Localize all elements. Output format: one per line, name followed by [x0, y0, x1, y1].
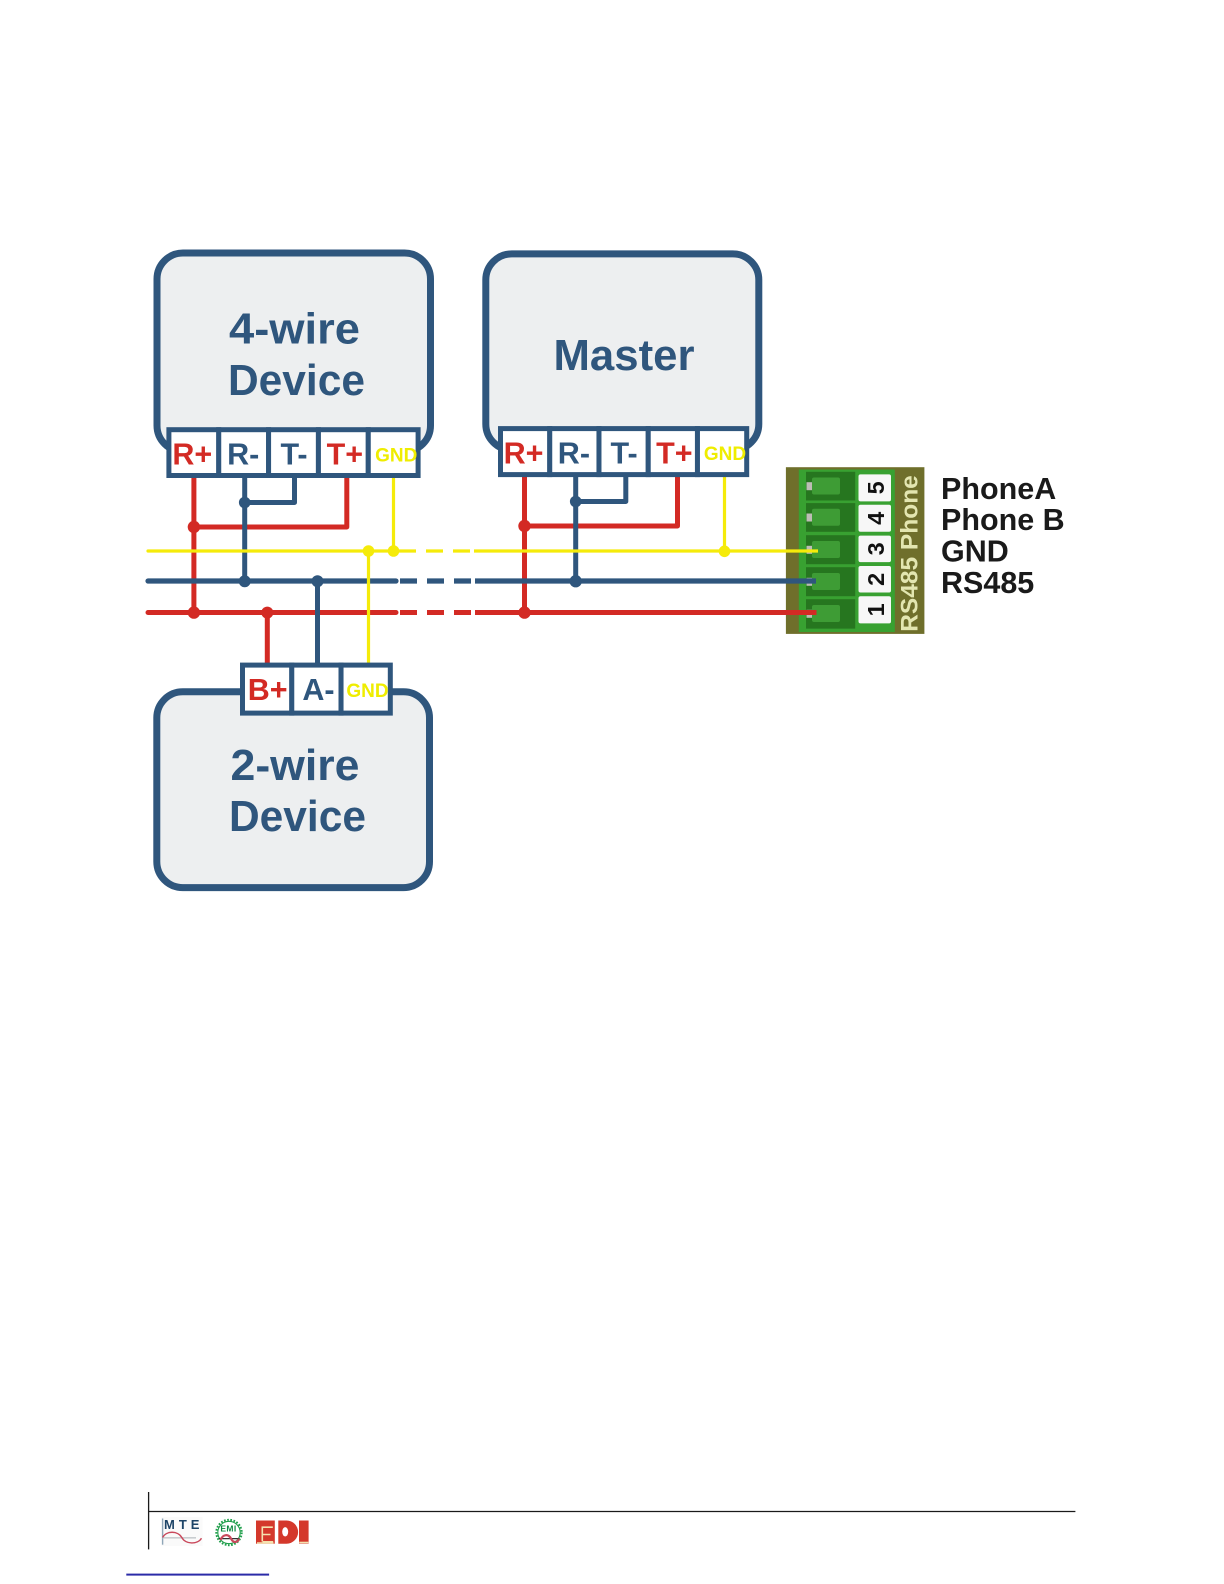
- wire Master R+ drop: [522, 476, 527, 613]
- svg-text:R+: R+: [172, 438, 212, 472]
- svg-text:A-: A-: [302, 673, 334, 707]
- junction 2-wire A- at blue bus: [312, 575, 324, 587]
- svg-text:PhoneA: PhoneA: [941, 472, 1056, 506]
- footer link underline: [126, 1574, 269, 1576]
- svg-text:Device: Device: [229, 793, 366, 841]
- 4-wire Device box: [157, 253, 431, 452]
- svg-text:MTE: MTE: [164, 1517, 203, 1532]
- 4-wire device terminal strip: [169, 430, 418, 476]
- svg-text:GND: GND: [941, 535, 1009, 569]
- junction Master R-/T- jumper: [570, 496, 582, 508]
- svg-text:2: 2: [863, 573, 889, 586]
- junction Master R+/T+ jumper: [518, 520, 530, 532]
- svg-text:GND: GND: [375, 445, 417, 466]
- svg-text:RS485 Phone: RS485 Phone: [897, 475, 924, 632]
- junction 4-wire R- at blue bus: [239, 575, 251, 587]
- svg-text:Device: Device: [228, 357, 365, 405]
- pin number plate 4: [859, 505, 892, 532]
- connector slot pin 5: [806, 472, 855, 501]
- junction 2-wire B+ at red bus: [261, 607, 273, 619]
- pin number plate 3: [859, 536, 892, 563]
- junction 4-wire R+ at red bus: [188, 606, 200, 618]
- wire 4-wire GND drop: [392, 476, 395, 551]
- junction Master R- at blue bus: [570, 575, 582, 587]
- svg-text:4-wire: 4-wire: [229, 306, 360, 354]
- svg-text:T-: T-: [611, 437, 638, 471]
- svg-text:T+: T+: [656, 437, 692, 471]
- svg-text:R-: R-: [558, 437, 590, 471]
- wire B+ data bus (red): [148, 610, 817, 615]
- MTE logo: [162, 1517, 204, 1546]
- connector slot pin 2: [806, 567, 855, 596]
- wire Master jumper R- to T-: [576, 476, 626, 502]
- 2-wire Device box: [157, 692, 430, 888]
- 2-wire device terminal strip: [243, 665, 391, 713]
- svg-text:2-wire: 2-wire: [231, 742, 360, 790]
- pin number plate 5: [859, 474, 892, 501]
- svg-text:GND: GND: [704, 444, 746, 465]
- svg-text:EMI: EMI: [220, 1524, 236, 1534]
- wire A- data bus (blue): [148, 578, 816, 583]
- EDI logo: [256, 1521, 309, 1544]
- svg-text:3: 3: [863, 542, 889, 555]
- junction 2-wire GND at yellow bus: [363, 545, 375, 557]
- wire Master jumper R+ to T+: [525, 476, 678, 526]
- wire 4-wire R- drop: [242, 476, 247, 581]
- pin number plate 1: [859, 596, 892, 623]
- svg-text:R-: R-: [227, 438, 259, 472]
- junction 4-wire GND at yellow bus: [388, 545, 400, 557]
- RS485 Phone connector body: [786, 467, 925, 634]
- Master box: [486, 254, 759, 450]
- connector slot pin 1: [806, 599, 855, 628]
- wire 4-wire jumper R+ to T+: [194, 476, 347, 527]
- junction 4-wire R-/T- jumper: [239, 497, 251, 509]
- footer horizontal rule: [148, 1511, 1075, 1513]
- svg-text:R+: R+: [504, 437, 544, 471]
- junction Master GND at yellow bus: [719, 546, 731, 558]
- wire 4-wire jumper R- to T-: [245, 476, 295, 503]
- wire 2-wire GND branch: [367, 551, 370, 664]
- svg-text:GND: GND: [346, 681, 388, 702]
- connector slot pin 3: [806, 535, 855, 564]
- svg-text:Master: Master: [554, 332, 695, 380]
- wire Master R- drop: [573, 476, 578, 581]
- svg-text:5: 5: [863, 481, 889, 494]
- junction Master R+ at red bus: [518, 606, 530, 618]
- svg-text:T-: T-: [280, 438, 307, 472]
- footer vertical rule: [148, 1492, 150, 1549]
- junction 4-wire R+/T+ jumper: [188, 521, 200, 533]
- svg-text:B+: B+: [248, 673, 288, 707]
- svg-text:1: 1: [863, 603, 889, 616]
- connector slot pin 4: [806, 503, 855, 532]
- EMI logo: [216, 1520, 241, 1545]
- pin number plate 2: [859, 566, 892, 593]
- svg-text:Phone B: Phone B: [941, 503, 1065, 537]
- wire 2-wire A- branch: [315, 581, 320, 664]
- wire 4-wire R+ drop: [191, 476, 196, 613]
- svg-text:T+: T+: [327, 438, 363, 472]
- svg-text:4: 4: [863, 512, 889, 525]
- wire Master GND drop: [723, 476, 726, 551]
- Master terminal strip: [501, 429, 747, 475]
- svg-text:RS485: RS485: [941, 566, 1034, 600]
- wire 2-wire B+ branch: [265, 613, 270, 665]
- wire GND bus (yellow): [148, 549, 818, 552]
